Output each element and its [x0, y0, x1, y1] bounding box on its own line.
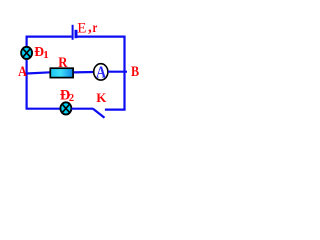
wire: left vertical below lamp D1 through node A down to bottom-left corner — [26, 60, 28, 109]
svg-text:,: , — [88, 20, 92, 36]
wire: top-right from battery to corner and down right side to node B and bottom-right corner — [77, 37, 124, 110]
svg-text:A: A — [18, 63, 27, 80]
svg-text:K: K — [96, 90, 107, 105]
wire: switch right contact to bottom-right corner — [105, 108, 126, 110]
lamp D1 (circle with X) — [21, 47, 32, 59]
svg-text:2: 2 — [69, 93, 74, 104]
resistor R box — [50, 68, 73, 77]
svg-text:B: B — [131, 63, 139, 79]
switch K open blade — [93, 109, 105, 118]
wire: ammeter to node B on right wire — [108, 71, 127, 73]
svg-text:1: 1 — [43, 49, 49, 61]
battery E,r long plate — [72, 25, 74, 40]
wire: bottom-left corner to lamp D2 — [26, 108, 61, 110]
wire: node A to resistor R — [27, 72, 51, 73]
svg-text:A: A — [96, 63, 107, 82]
lamp D2 (circle with X) — [60, 102, 71, 114]
svg-text:r: r — [93, 20, 98, 35]
wire: resistor R to ammeter — [74, 71, 94, 74]
battery E,r short thick plate — [75, 30, 78, 38]
wire: top-left from battery to top-left corner and down to lamp D1 — [27, 37, 72, 48]
svg-text:R: R — [58, 55, 68, 71]
ammeter A — [94, 63, 108, 82]
wire: lamp D2 to switch K pivot — [71, 108, 93, 110]
svg-text:E: E — [77, 20, 86, 36]
